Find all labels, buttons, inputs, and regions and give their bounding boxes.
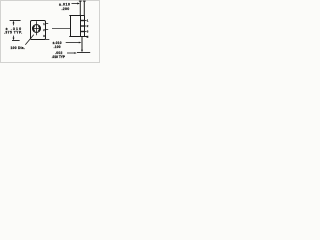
side view left edge [70,15,72,37]
lens circle [33,25,41,33]
side view lead stub 1 [85,20,87,22]
side view lead stub 2 [85,25,87,27]
front view lead stub 3 (bottom ledge) [46,39,50,41]
top dimension arrow [72,3,80,5]
front view lead stub 2 [46,28,48,30]
left dimension extension line bottom [12,40,20,42]
bottom dimension arrow to seating plane [67,52,76,54]
svg-text:.200: .200 [61,7,69,11]
top dimension extension line right cap [83,0,86,2]
side view inner lead cross-section 3 [81,31,84,32]
svg-text:.100: .100 [54,45,61,49]
figure border frame [1,1,100,63]
side view inner lead-row line [80,16,82,37]
svg-text:100 Dia.: 100 Dia. [11,46,26,50]
seating plane line [77,52,90,54]
svg-text:.010 TYP: .010 TYP [52,55,66,59]
top dimension extension line left [79,1,81,16]
centerline between views [52,28,70,30]
paper background [0,0,100,63]
lead below side view [81,37,83,51]
lens inner crescent left [33,26,34,31]
svg-text:.375 TYP.: .375 TYP. [4,31,23,35]
lens horizontal centerline [32,28,41,30]
lens inner crescent right [39,26,40,31]
front view lead stub 1 [46,22,48,24]
lens vertical centerline [36,21,38,35]
left dimension arrow up [13,22,15,26]
mid dimension arrow to lead [66,42,81,44]
svg-text:±.010: ±.010 [59,2,70,6]
side view inner lead cross-section 2 [81,25,84,26]
lead arrowhead at seating plane [81,50,83,52]
top dimension extension line left cap [79,0,82,2]
side view top edge [69,15,84,17]
side view right edge [84,16,86,37]
left dimension arrow down [13,36,15,40]
side view bottom edge [69,36,87,38]
front view body outline [31,21,46,40]
left dimension extension line top [10,20,21,22]
side view lead stub 3 [85,31,87,33]
top dimension extension line right [83,1,85,16]
side view inner lead cross-section 1 [81,20,84,21]
lens diameter leader line [25,35,34,45]
side view bottom-right tick mark [87,36,89,38]
